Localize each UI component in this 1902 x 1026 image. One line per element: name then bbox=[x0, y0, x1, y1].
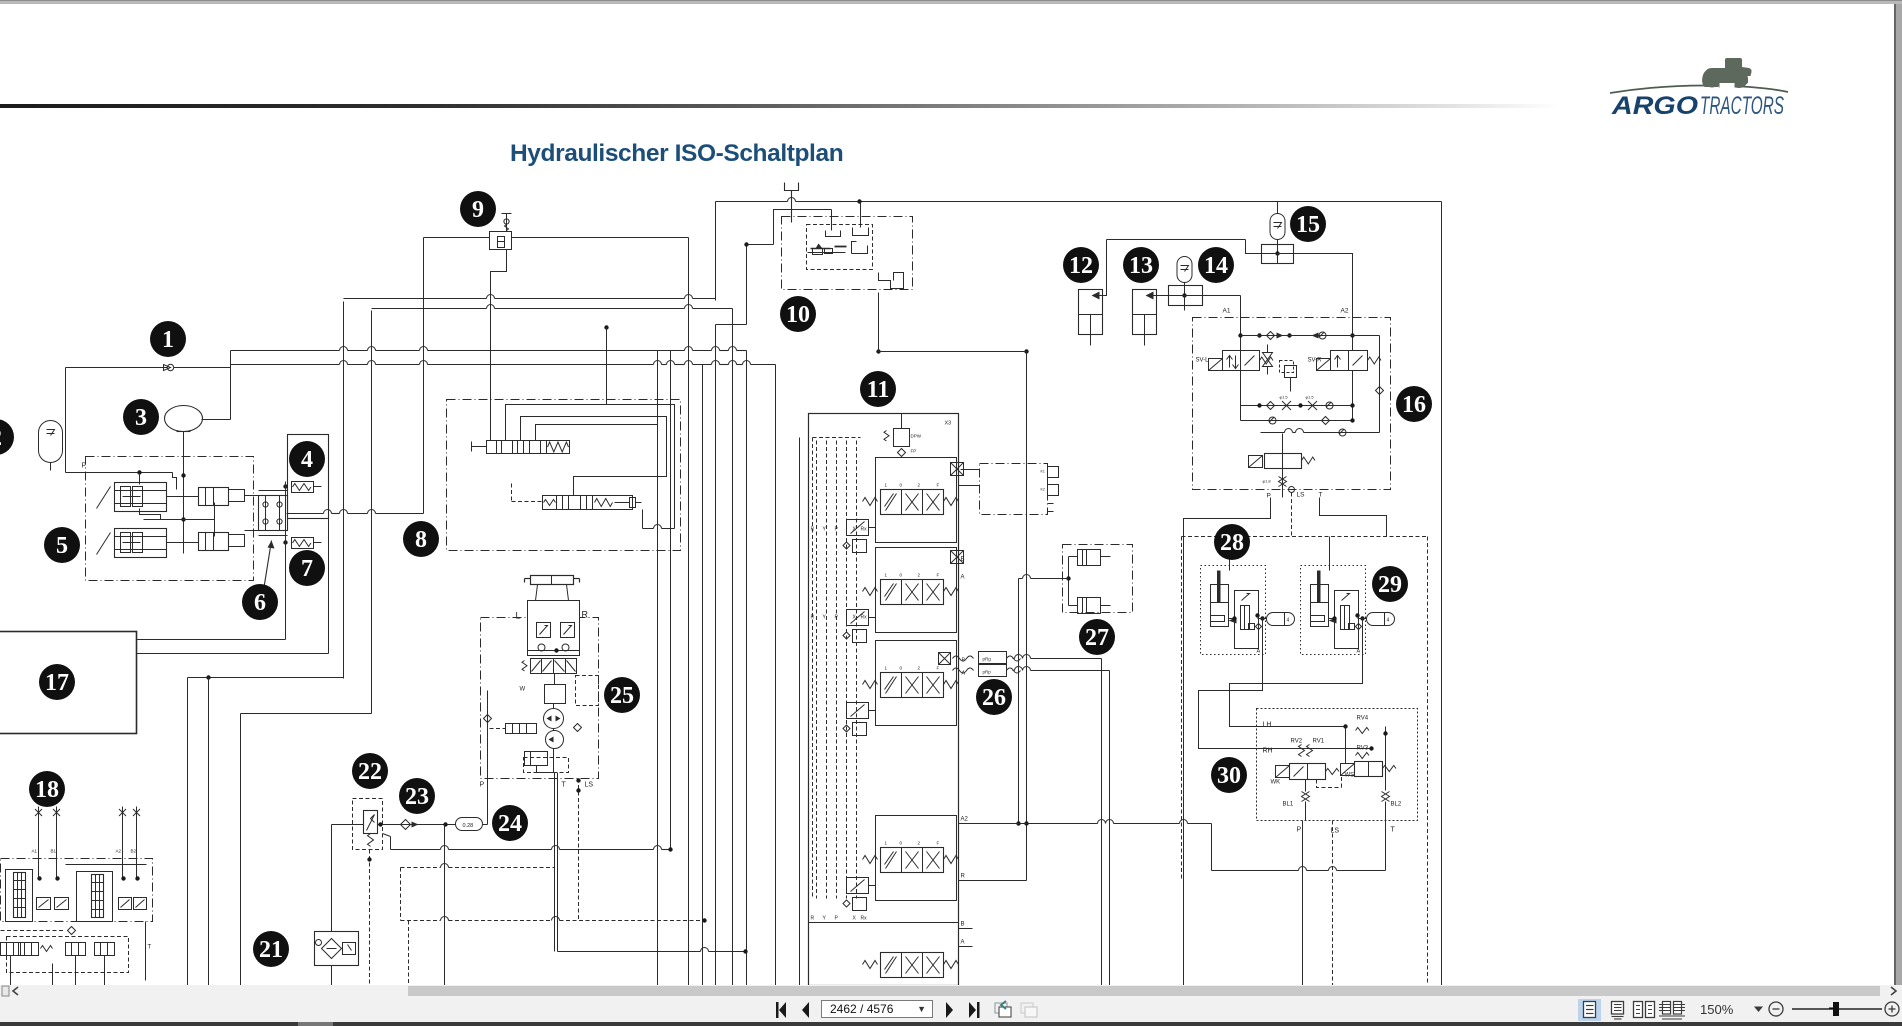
svg-text:0: 0 bbox=[900, 573, 903, 578]
svg-text:LS: LS bbox=[1297, 492, 1306, 499]
svg-text:A: A bbox=[961, 940, 965, 946]
svg-text:B2: B2 bbox=[131, 849, 137, 854]
svg-text:pRp: pRp bbox=[983, 670, 992, 675]
svg-text:18: 18 bbox=[35, 777, 59, 803]
svg-text:T: T bbox=[1319, 492, 1323, 499]
svg-text:25: 25 bbox=[610, 683, 634, 709]
svg-text:P: P bbox=[480, 782, 485, 789]
svg-text:W: W bbox=[520, 687, 526, 693]
svg-text:φ1.5: φ1.5 bbox=[1306, 395, 1315, 400]
svg-text:BL2: BL2 bbox=[1391, 802, 1402, 808]
svg-text:13: 13 bbox=[1129, 253, 1153, 279]
svg-text:15: 15 bbox=[1296, 212, 1320, 238]
svg-text:7: 7 bbox=[301, 556, 313, 582]
svg-text:T: T bbox=[148, 945, 152, 951]
svg-text:2: 2 bbox=[918, 483, 921, 488]
svg-text:1: 1 bbox=[885, 841, 888, 846]
svg-text:0: 0 bbox=[900, 483, 903, 488]
svg-text:12: 12 bbox=[1069, 253, 1093, 279]
svg-text:0: 0 bbox=[900, 841, 903, 846]
svg-text:0.28: 0.28 bbox=[463, 823, 474, 829]
svg-text:SV-L: SV-L bbox=[1196, 358, 1210, 364]
svg-text:17: 17 bbox=[45, 670, 69, 696]
svg-text:Rx: Rx bbox=[861, 527, 868, 533]
svg-text:2: 2 bbox=[918, 666, 921, 671]
svg-text:A2: A2 bbox=[961, 817, 969, 823]
svg-text:P: P bbox=[835, 916, 839, 922]
svg-text:2: 2 bbox=[918, 573, 921, 578]
svg-text:A1: A1 bbox=[1223, 308, 1231, 315]
svg-text:B: B bbox=[961, 557, 965, 563]
svg-text:A1: A1 bbox=[32, 849, 38, 854]
svg-text:LS: LS bbox=[1331, 828, 1340, 835]
svg-text:T: T bbox=[1391, 827, 1396, 834]
svg-text:9: 9 bbox=[472, 197, 484, 223]
svg-text:1: 1 bbox=[885, 483, 888, 488]
svg-text:A: A bbox=[1257, 649, 1261, 655]
svg-text:26: 26 bbox=[982, 685, 1006, 711]
svg-text:A2: A2 bbox=[1341, 308, 1349, 315]
svg-text:RV4: RV4 bbox=[1357, 716, 1369, 722]
svg-text:1: 1 bbox=[162, 327, 174, 353]
svg-text:X: X bbox=[853, 615, 857, 621]
svg-text:FP: FP bbox=[911, 449, 917, 454]
svg-text:Y: Y bbox=[823, 527, 827, 533]
svg-text:R: R bbox=[961, 874, 966, 880]
svg-text:B: B bbox=[962, 658, 966, 664]
svg-text:K1: K1 bbox=[1041, 470, 1045, 474]
svg-text:29: 29 bbox=[1378, 572, 1402, 598]
svg-text:DPW: DPW bbox=[911, 434, 922, 439]
svg-text:3: 3 bbox=[135, 405, 147, 431]
svg-text:pRg: pRg bbox=[983, 657, 992, 662]
svg-text:T: T bbox=[562, 782, 567, 789]
svg-text:R: R bbox=[811, 615, 815, 621]
svg-text:R: R bbox=[582, 610, 589, 620]
svg-text:RV2: RV2 bbox=[1291, 739, 1303, 745]
svg-text:21: 21 bbox=[259, 937, 283, 963]
svg-text:φ1.5: φ1.5 bbox=[1280, 395, 1289, 400]
svg-text:23: 23 bbox=[405, 784, 429, 810]
svg-text:10: 10 bbox=[786, 302, 810, 328]
svg-text:X3: X3 bbox=[945, 421, 952, 427]
svg-text:8: 8 bbox=[415, 527, 427, 553]
svg-text:A: A bbox=[961, 575, 965, 581]
svg-text:28: 28 bbox=[1220, 530, 1244, 556]
svg-text:2: 2 bbox=[0, 425, 2, 451]
svg-text:30: 30 bbox=[1217, 763, 1241, 789]
svg-text:6: 6 bbox=[254, 590, 266, 616]
svg-text:F: F bbox=[937, 841, 940, 846]
svg-text:B1: B1 bbox=[51, 849, 57, 854]
svg-text:RV1: RV1 bbox=[1313, 739, 1325, 745]
svg-text:R: R bbox=[811, 527, 815, 533]
svg-text:22: 22 bbox=[358, 759, 382, 785]
svg-text:0: 0 bbox=[900, 666, 903, 671]
svg-text:1: 1 bbox=[885, 666, 888, 671]
svg-text:P: P bbox=[1297, 827, 1302, 834]
svg-text:5: 5 bbox=[56, 533, 68, 559]
svg-text:A2: A2 bbox=[116, 849, 122, 854]
svg-text:Rx: Rx bbox=[861, 615, 868, 621]
svg-text:P: P bbox=[835, 615, 839, 621]
svg-text:150%: 150% bbox=[1700, 1002, 1734, 1017]
svg-text:LS: LS bbox=[585, 782, 594, 789]
svg-text:27: 27 bbox=[1085, 625, 1109, 651]
svg-text:24: 24 bbox=[498, 811, 522, 837]
svg-text:F: F bbox=[937, 573, 940, 578]
svg-text:P: P bbox=[835, 527, 839, 533]
svg-text:4: 4 bbox=[301, 447, 313, 473]
svg-text:A: A bbox=[962, 671, 966, 677]
svg-text:F: F bbox=[937, 483, 940, 488]
svg-text:K2: K2 bbox=[1041, 488, 1045, 492]
svg-text:Y: Y bbox=[823, 916, 827, 922]
svg-text:B: B bbox=[961, 922, 965, 928]
svg-text:2: 2 bbox=[918, 841, 921, 846]
svg-text:16: 16 bbox=[1402, 392, 1426, 418]
svg-text:A: A bbox=[1357, 649, 1361, 655]
svg-text:φ1.8: φ1.8 bbox=[1263, 479, 1272, 484]
svg-text:4: 4 bbox=[1387, 618, 1390, 624]
svg-text:R: R bbox=[811, 916, 815, 922]
svg-text:WK: WK bbox=[1271, 780, 1281, 786]
svg-text:11: 11 bbox=[867, 377, 890, 403]
svg-text:BL1: BL1 bbox=[1283, 802, 1294, 808]
svg-text:14: 14 bbox=[1204, 253, 1228, 279]
svg-text:Y: Y bbox=[823, 615, 827, 621]
svg-text:LH: LH bbox=[1263, 722, 1272, 729]
svg-text:F: F bbox=[937, 666, 940, 671]
svg-text:L: L bbox=[516, 611, 521, 621]
svg-text:X: X bbox=[853, 916, 857, 922]
svg-text:Rx: Rx bbox=[861, 916, 868, 922]
svg-text:4: 4 bbox=[1287, 618, 1290, 624]
svg-text:1: 1 bbox=[885, 573, 888, 578]
